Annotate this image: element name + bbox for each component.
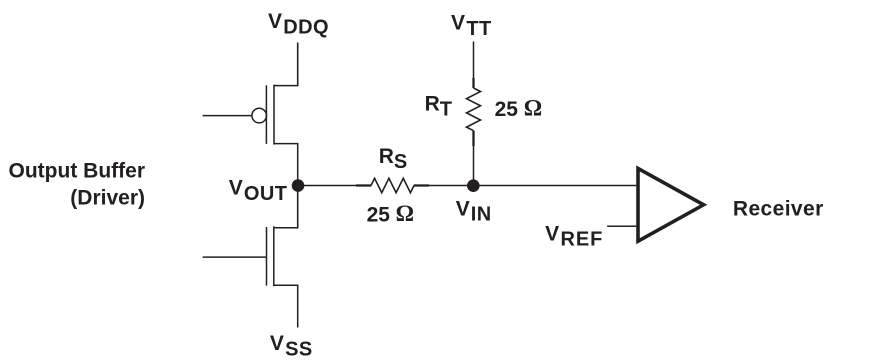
- node VOUT junction dot: [292, 179, 305, 192]
- label VIN: [456, 198, 492, 226]
- transistor Q2 (NMOS) gate bar: [266, 227, 268, 286]
- svg-text:V: V: [456, 198, 470, 221]
- svg-text:(Driver): (Driver): [70, 186, 145, 209]
- label VSS: [270, 332, 313, 360]
- svg-text:R: R: [379, 145, 394, 168]
- transistor Q1 (PMOS) gate wire: [203, 115, 252, 117]
- svg-text:25: 25: [495, 98, 519, 121]
- transistor Q1 (PMOS) channel bar: [273, 85, 275, 145]
- resistor RT top lead: [472, 78, 474, 88]
- resistor RS right lead: [414, 184, 429, 186]
- svg-text:Ω: Ω: [396, 201, 414, 226]
- label VREF: [545, 222, 603, 250]
- node VIN junction dot: [467, 179, 480, 192]
- svg-text:DDQ: DDQ: [283, 16, 329, 38]
- transistor Q1 (PMOS) drain lead: [274, 144, 298, 186]
- svg-text:V: V: [451, 12, 465, 35]
- svg-text:TT: TT: [466, 18, 491, 40]
- svg-text:V: V: [268, 10, 282, 33]
- svg-text:V: V: [229, 177, 243, 200]
- label VTT: [451, 12, 492, 40]
- resistor RS left lead: [356, 184, 371, 186]
- resistor RT bottom lead: [472, 131, 474, 146]
- label 25 ohm for RS: [367, 201, 414, 226]
- svg-text:V: V: [270, 332, 284, 355]
- svg-text:V: V: [545, 222, 559, 245]
- svg-text:25: 25: [367, 203, 391, 226]
- wire VTT vertical: [473, 42, 475, 89]
- transistor Q1 (PMOS) gate bubble: [252, 108, 267, 123]
- wire node VOUT to NMOS drain: [297, 186, 299, 228]
- label RS: [379, 145, 408, 173]
- wire VREF to receiver: [607, 225, 636, 227]
- wire VOUT to RS: [298, 185, 357, 187]
- svg-text:IN: IN: [471, 204, 492, 226]
- svg-text:Receiver: Receiver: [733, 197, 824, 220]
- svg-text:Output Buffer: Output Buffer: [9, 159, 145, 182]
- resistor RS zigzag: [371, 178, 414, 192]
- svg-text:OUT: OUT: [244, 183, 287, 205]
- transistor Q2 (NMOS) gate wire: [203, 256, 267, 258]
- label 25 ohm for RT: [495, 96, 543, 121]
- wire node VIN to receiver: [474, 185, 637, 187]
- transistor Q2 (NMOS) channel bar: [273, 226, 275, 286]
- transistor Q1 (PMOS) gate bar: [265, 85, 267, 144]
- svg-text:T: T: [440, 99, 452, 121]
- svg-text:S: S: [394, 151, 407, 173]
- wire VDDQ vertical: [297, 43, 299, 86]
- wire RS to node VIN: [428, 185, 474, 187]
- label VOUT: [229, 177, 288, 205]
- transistor Q2 (NMOS) drain lead: [274, 186, 298, 228]
- transistor Q2 (NMOS) source lead: [274, 285, 298, 327]
- svg-text:R: R: [425, 92, 440, 115]
- label Output Buffer (Driver): [9, 159, 145, 209]
- svg-text:Ω: Ω: [524, 96, 542, 121]
- wire RT to node VIN: [473, 131, 475, 186]
- svg-text:SS: SS: [285, 338, 312, 360]
- transistor Q1 (PMOS) source lead: [274, 43, 298, 86]
- label RT: [425, 92, 452, 120]
- svg-text:REF: REF: [561, 229, 604, 251]
- label VDDQ: [268, 10, 329, 38]
- op-amp U1 receiver triangle: [638, 168, 704, 241]
- resistor RT zigzag: [467, 88, 481, 131]
